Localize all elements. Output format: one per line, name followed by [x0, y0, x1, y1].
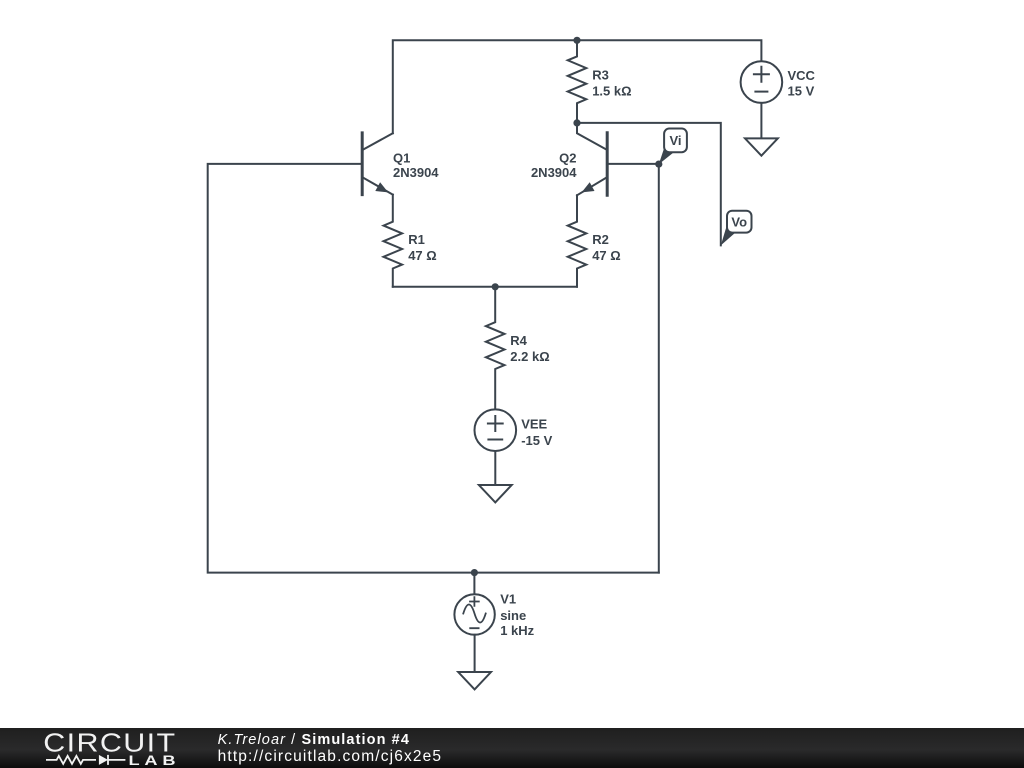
wire Q2 base [607, 163, 659, 165]
flag Vi [659, 129, 687, 165]
svg-text:Q1: Q1 [393, 151, 410, 166]
ground (V1) [458, 672, 491, 689]
wire Q1 base net (left loop to bottom rail) [208, 164, 659, 573]
voltage source VEE [475, 409, 517, 451]
svg-text:2N3904: 2N3904 [531, 165, 577, 180]
label Q2 [531, 151, 577, 181]
voltage source VCC [741, 61, 783, 103]
transistor Q2 [577, 123, 607, 195]
svg-text:47 Ω: 47 Ω [592, 248, 621, 263]
flag Vo [721, 211, 752, 246]
resistor R3 [568, 40, 587, 123]
label R4 [510, 333, 549, 364]
svg-text:R1: R1 [408, 232, 425, 247]
wire VCC to ground [760, 103, 762, 138]
label Q1 [393, 151, 439, 181]
svg-text:LAB: LAB [129, 753, 181, 768]
svg-text:VCC: VCC [788, 68, 816, 83]
svg-text:K.Treloar / Simulation #4: K.Treloar / Simulation #4 [218, 732, 410, 748]
svg-text:Vi: Vi [669, 133, 681, 148]
label R2 [592, 232, 621, 263]
logo resistor-diode glyph [46, 755, 125, 765]
svg-text:1.5 kΩ: 1.5 kΩ [592, 83, 631, 98]
svg-text:15 V: 15 V [788, 83, 815, 98]
svg-text:R2: R2 [592, 232, 609, 247]
label VCC [788, 68, 816, 99]
svg-text:R3: R3 [592, 68, 609, 83]
label R1 [408, 232, 437, 263]
svg-text:2.2 kΩ: 2.2 kΩ [510, 349, 549, 364]
svg-text:VEE: VEE [521, 416, 547, 431]
wire top rail from Q1 collector to VCC [393, 40, 762, 133]
svg-text:47 Ω: 47 Ω [408, 248, 437, 263]
voltage source V1 (sine) [454, 573, 494, 672]
footer bar [0, 728, 1024, 768]
resistor R4 [486, 287, 505, 410]
wire VEE to ground [494, 451, 496, 485]
transistor Q1 [362, 133, 393, 195]
svg-text:http://circuitlab.com/cj6x2e5: http://circuitlab.com/cj6x2e5 [218, 748, 443, 765]
svg-text:sine: sine [500, 608, 526, 623]
svg-text:1 kHz: 1 kHz [500, 623, 534, 638]
node V1 junction [471, 569, 478, 576]
resistor R2 [568, 195, 587, 286]
ground (VCC) [745, 138, 778, 155]
wire emitter rail R1 to R2 [393, 286, 577, 288]
node top rail junction [573, 37, 580, 44]
resistor R1 [384, 195, 403, 287]
svg-text:2N3904: 2N3904 [393, 165, 439, 180]
svg-text:Q2: Q2 [559, 151, 576, 166]
svg-text:R4: R4 [510, 333, 527, 348]
ground (VEE) [479, 485, 512, 502]
node Vi junction [655, 161, 662, 168]
node R3 bottom / Q2 collector / Vo net [573, 119, 580, 126]
label R3 [592, 68, 631, 99]
label VEE [521, 416, 552, 447]
wire Vo net [577, 123, 721, 245]
node tail junction [492, 283, 499, 290]
svg-text:V1: V1 [500, 592, 516, 607]
svg-text:-15 V: -15 V [521, 433, 552, 448]
label V1 [500, 592, 534, 639]
svg-text:Vo: Vo [731, 215, 747, 230]
wire Vi net vertical [658, 164, 660, 572]
